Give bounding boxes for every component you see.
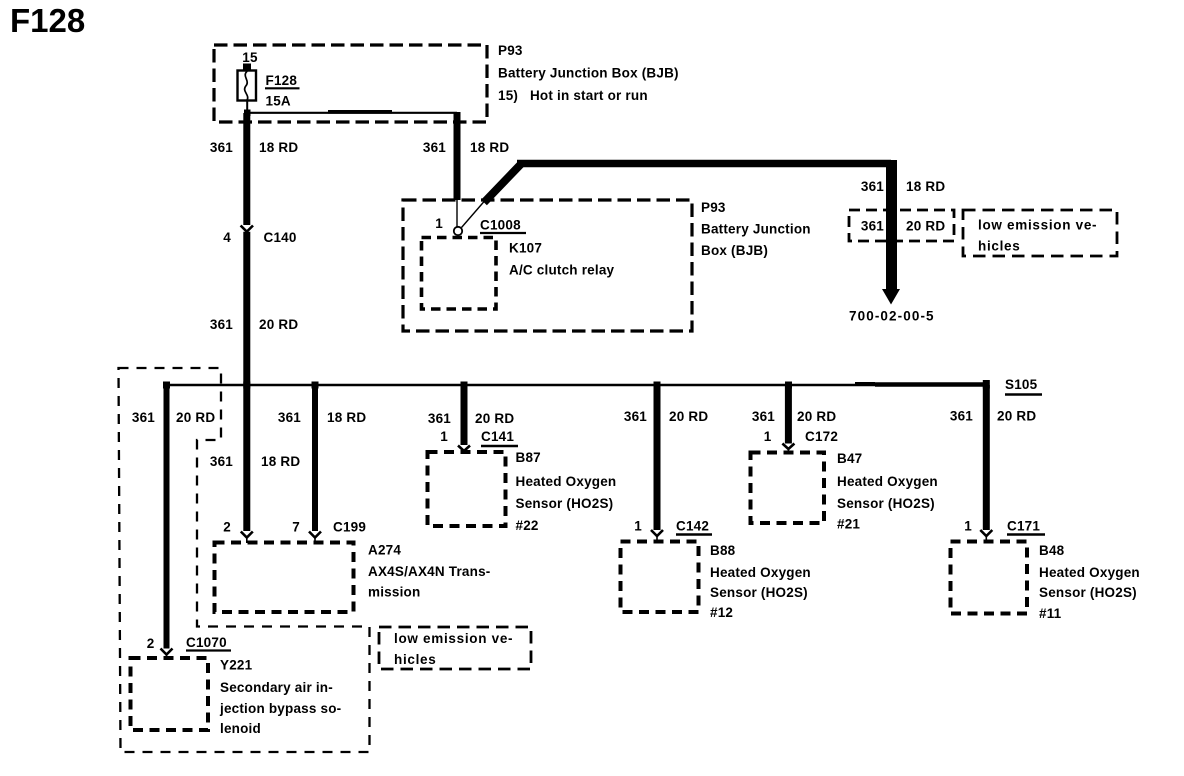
solenoid Y221 box <box>131 658 209 730</box>
svg-text:#12: #12 <box>710 605 733 620</box>
connector C1070 arrow <box>161 649 173 655</box>
svg-text:361: 361 <box>428 411 451 426</box>
svg-text:2: 2 <box>147 636 155 651</box>
svg-text:361: 361 <box>210 317 233 332</box>
svg-text:Battery Junction: Battery Junction <box>701 222 811 237</box>
C1070 labels <box>147 635 227 651</box>
svg-text:C171: C171 <box>1007 519 1040 534</box>
fuse F128 symbol <box>238 71 257 101</box>
svg-text:P93: P93 <box>498 43 523 58</box>
svg-text:C1008: C1008 <box>480 218 521 233</box>
svg-text:B87: B87 <box>516 450 541 465</box>
svg-text:15: 15 <box>242 50 258 65</box>
B47 labels <box>837 451 938 532</box>
svg-text:2: 2 <box>223 520 231 535</box>
svg-text:Sensor (HO2S): Sensor (HO2S) <box>710 585 808 600</box>
junction node 4 <box>461 382 468 389</box>
svg-text:mission: mission <box>368 585 420 600</box>
wire horizontal inside BJB <box>247 112 457 114</box>
svg-text:A/C clutch relay: A/C clutch relay <box>509 263 615 278</box>
svg-text:361: 361 <box>861 219 884 234</box>
low emission region dashed polygon <box>119 368 370 752</box>
P93 BJB text <box>498 43 679 103</box>
wire fuse bottom to junction <box>246 101 248 113</box>
connector C142 label <box>676 519 712 535</box>
connector C140 arrow <box>241 226 253 232</box>
svg-text:C172: C172 <box>805 429 838 444</box>
wire 361 18 RD right (fuse box to relay) <box>454 112 461 200</box>
svg-text:B48: B48 <box>1039 543 1065 558</box>
connector C1008 label <box>480 218 526 234</box>
svg-text:15) Hot in start or run: 15) Hot in start or run <box>498 88 648 103</box>
svg-text:361: 361 <box>861 179 884 194</box>
svg-text:low emission ve-: low emission ve- <box>978 218 1097 233</box>
svg-text:hicles: hicles <box>978 239 1020 254</box>
svg-text:361: 361 <box>950 409 973 424</box>
wire horizontal run <box>517 160 891 168</box>
wire bus to B88 pin 1 <box>654 385 661 530</box>
off-page arrowhead <box>882 289 900 305</box>
wire bus to A274 pin 2 <box>243 385 250 531</box>
svg-text:20 RD: 20 RD <box>797 409 836 424</box>
svg-text:Secondary air in-: Secondary air in- <box>220 680 333 695</box>
wire bus to B48 pin 1 (S105 branch) <box>983 385 990 530</box>
svg-text:F128: F128 <box>10 2 85 39</box>
pin 1 arrow <box>458 446 470 452</box>
Y221 labels <box>219 658 341 737</box>
pin 1 arrow <box>980 530 992 536</box>
svg-text:F128: F128 <box>266 73 298 88</box>
bus wire S105 <box>167 384 987 386</box>
svg-text:18 RD: 18 RD <box>261 454 300 469</box>
low emission vehicles dashed box (top right) <box>963 210 1117 256</box>
HO2S B48 box <box>951 542 1028 614</box>
svg-text:B88: B88 <box>710 543 736 558</box>
svg-text:C141: C141 <box>481 429 514 444</box>
svg-text:Heated Oxygen: Heated Oxygen <box>516 474 617 489</box>
leader line <box>462 201 485 228</box>
thick wire diagonal from relay to top-right run <box>484 164 521 203</box>
junction node 3 <box>312 382 319 389</box>
P93 battery junction box text <box>701 200 811 258</box>
svg-text:Sensor (HO2S): Sensor (HO2S) <box>1039 585 1137 600</box>
svg-text:700-02-00-5: 700-02-00-5 <box>849 309 935 324</box>
svg-text:lenoid: lenoid <box>220 721 261 736</box>
svg-text:361: 361 <box>210 454 233 469</box>
pin 15 node <box>243 64 251 71</box>
svg-text:hicles: hicles <box>394 652 436 667</box>
pin 1 arrow <box>651 530 663 536</box>
svg-text:Heated Oxygen: Heated Oxygen <box>1039 565 1140 580</box>
wire label 361 18 RD <box>861 179 945 194</box>
svg-text:S105: S105 <box>1005 377 1038 392</box>
wire bus to B87 pin 1 <box>461 385 468 445</box>
svg-text:#11: #11 <box>1039 606 1062 621</box>
svg-text:361: 361 <box>210 140 233 155</box>
wire C140 down to bus <box>243 232 250 386</box>
wire bus to B47 pin 1 <box>785 385 792 444</box>
junction node 7 (S105 end) <box>983 380 990 389</box>
svg-text:C1070: C1070 <box>186 635 227 650</box>
svg-text:#22: #22 <box>516 518 539 533</box>
wire bus to C1070 <box>164 385 170 649</box>
A274 labels <box>368 543 491 600</box>
svg-text:B47: B47 <box>837 451 862 466</box>
svg-text:Heated Oxygen: Heated Oxygen <box>710 565 811 580</box>
svg-text:361: 361 <box>132 410 155 425</box>
HO2S B87 box <box>428 452 506 526</box>
svg-text:18 RD: 18 RD <box>470 140 509 155</box>
svg-text:Sensor (HO2S): Sensor (HO2S) <box>837 496 935 511</box>
svg-text:20 RD: 20 RD <box>906 219 945 234</box>
junction node 6 <box>785 382 792 389</box>
relay P93 dashed box <box>403 200 692 331</box>
svg-text:20 RD: 20 RD <box>259 317 298 332</box>
svg-text:20 RD: 20 RD <box>475 411 514 426</box>
battery junction box (BJB) fuse dashed box <box>214 45 487 122</box>
pin 7 arrow <box>309 532 321 538</box>
svg-text:4: 4 <box>223 230 231 245</box>
B48 labels <box>1039 543 1140 621</box>
svg-text:#21: #21 <box>837 517 860 532</box>
svg-text:jection bypass so-: jection bypass so- <box>219 701 341 716</box>
junction node 5 <box>654 382 661 389</box>
svg-text:1: 1 <box>440 429 448 444</box>
S105 label <box>1005 377 1042 395</box>
svg-text:20 RD: 20 RD <box>997 409 1036 424</box>
wire vertical down to off-page arrow <box>886 160 897 290</box>
svg-text:Y221: Y221 <box>220 658 253 673</box>
wire bus to A274 pin 7 <box>312 385 318 531</box>
svg-text:361: 361 <box>278 410 301 425</box>
fuse value label F128 / 15A <box>265 73 300 109</box>
svg-text:C142: C142 <box>676 519 709 534</box>
transmission A274 box <box>215 543 354 613</box>
connector C171 label <box>1007 519 1045 535</box>
connector C141 label <box>481 429 518 446</box>
svg-text:C199: C199 <box>333 520 366 535</box>
svg-text:361: 361 <box>752 409 775 424</box>
HO2S B88 box <box>621 542 699 613</box>
relay pin lead <box>456 200 458 227</box>
relay K107 inner box <box>422 238 497 310</box>
wire 361 18 RD left (fuse to C140) <box>243 113 250 225</box>
svg-text:15A: 15A <box>266 94 291 109</box>
svg-text:18 RD: 18 RD <box>906 179 945 194</box>
svg-text:P93: P93 <box>701 200 726 215</box>
B88 labels <box>710 543 811 620</box>
svg-text:Sensor (HO2S): Sensor (HO2S) <box>516 496 614 511</box>
C140 labels <box>223 230 296 245</box>
wire label 361 18 RD <box>210 140 298 155</box>
junction node 1 <box>163 382 170 389</box>
svg-text:low emission ve-: low emission ve- <box>394 631 513 646</box>
svg-text:7: 7 <box>292 520 300 535</box>
junction node 2 <box>243 382 250 389</box>
wire label 361 20 RD <box>210 317 298 332</box>
svg-text:20 RD: 20 RD <box>669 409 708 424</box>
svg-text:1: 1 <box>634 519 642 534</box>
svg-text:C140: C140 <box>264 230 297 245</box>
K107 labels <box>509 241 615 278</box>
svg-text:18 RD: 18 RD <box>327 410 366 425</box>
svg-text:Box (BJB): Box (BJB) <box>701 243 768 258</box>
svg-text:Battery Junction Box (BJB): Battery Junction Box (BJB) <box>498 66 679 81</box>
svg-text:20 RD: 20 RD <box>176 410 215 425</box>
svg-text:361: 361 <box>624 409 647 424</box>
pin 1 arrow <box>782 444 794 450</box>
svg-text:18 RD: 18 RD <box>259 140 298 155</box>
B87 labels <box>516 450 617 533</box>
svg-text:AX4S/AX4N Trans-: AX4S/AX4N Trans- <box>368 564 491 579</box>
svg-text:361: 361 <box>423 140 446 155</box>
svg-text:1: 1 <box>964 519 972 534</box>
svg-text:K107: K107 <box>509 241 542 256</box>
svg-text:Heated Oxygen: Heated Oxygen <box>837 474 938 489</box>
HO2S B47 box <box>751 453 825 524</box>
dashed box 361 20 RD <box>849 210 954 241</box>
svg-text:A274: A274 <box>368 543 401 558</box>
low emission vehicles dashed box (bottom) <box>379 627 531 669</box>
svg-text:1: 1 <box>435 216 443 231</box>
pin 1 circle C1008 <box>454 227 462 235</box>
junction node <box>244 110 251 117</box>
pin 2 arrow <box>241 532 253 538</box>
svg-text:1: 1 <box>764 429 772 444</box>
